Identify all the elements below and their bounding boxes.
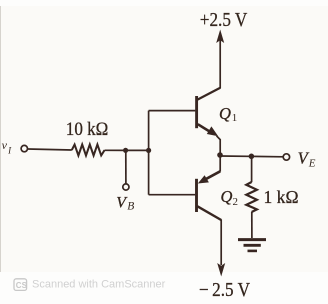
wire: Q1 collector diagonal	[198, 88, 221, 100]
wire: base coupling bracket vertical	[148, 111, 150, 195]
node dot 1k junction	[249, 154, 255, 160]
svg-text:10 kΩ: 10 kΩ	[66, 120, 109, 140]
resistor R 10 kOhm zigzag	[72, 145, 105, 156]
transistor Q2 base bar	[195, 179, 198, 212]
transistor Q1 emitter with arrow	[198, 124, 212, 133]
wire: Q1 base lead	[149, 110, 196, 112]
CamScanner CS icon	[14, 279, 27, 291]
input terminal circle	[21, 145, 27, 151]
ground symbol	[238, 238, 266, 241]
scan page left edge	[0, 6, 1, 272]
wire: +2.5V vertical to Q1 collector	[219, 40, 221, 88]
transistor Q2 (pnp) emitter diagonal with arrow into base	[205, 171, 221, 180]
V_B terminal circle	[123, 184, 129, 190]
transistor Q1 base bar	[195, 96, 198, 128]
svg-text:2: 2	[233, 196, 239, 208]
node dot V_B junction	[123, 148, 128, 153]
wire: V_B drop	[125, 150, 127, 184]
svg-text:− 2.5 V: − 2.5 V	[199, 279, 250, 301]
wire: output V_E	[220, 155, 283, 158]
+2.5V supply arrow	[216, 30, 224, 44]
resistor 1 kOhm zigzag	[246, 182, 257, 212]
wire: input to resistor	[28, 149, 72, 150]
node dot emitter/VE	[217, 152, 223, 158]
svg-text:1: 1	[232, 112, 238, 124]
svg-text:Scanned with CamScanner: Scanned with CamScanner	[32, 279, 166, 291]
svg-text:1 kΩ: 1 kΩ	[264, 187, 299, 207]
wire: V_E node to 1k resistor	[251, 156, 253, 182]
svg-text:Q: Q	[221, 187, 233, 206]
wire: 1k to ground	[251, 212, 253, 238]
svg-text:v: v	[2, 138, 8, 152]
svg-text:B: B	[127, 201, 134, 213]
node dot at bracket / input	[146, 148, 151, 153]
svg-text:+2.5 V: +2.5 V	[200, 9, 248, 31]
wire: Q2 base lead	[149, 194, 196, 196]
wire: Q2 collector down to -2.5V	[220, 220, 222, 266]
V_E terminal circle	[283, 154, 289, 160]
wire: emitter junction vertical	[217, 136, 221, 172]
svg-text:E: E	[308, 157, 316, 169]
svg-text:CS: CS	[16, 281, 28, 290]
wire: resistor to bracket	[105, 149, 149, 151]
svg-text:Q: Q	[219, 104, 231, 123]
transistor Q2 collector diagonal	[197, 206, 221, 220]
-2.5V supply arrow (down)	[217, 263, 225, 277]
